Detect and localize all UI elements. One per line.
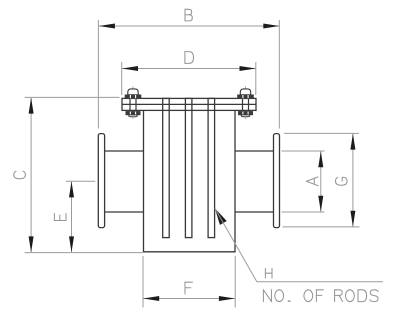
dimension B label <box>185 9 192 21</box>
dimension F arrow right <box>219 296 235 301</box>
dimension E label <box>54 213 66 220</box>
dimension C / E bottom extension line <box>25 252 143 254</box>
dimension G label <box>336 177 348 185</box>
leader H arrowhead <box>215 208 227 225</box>
dimension B extension line right <box>278 20 280 129</box>
dimension D arrow left <box>122 66 138 71</box>
right pipe bottom line <box>235 211 274 213</box>
dimension A top extension line <box>282 150 325 152</box>
bolt left top nut <box>125 95 141 99</box>
dimension B arrow left <box>99 24 115 29</box>
rod 1 <box>163 98 170 237</box>
right pipe top line <box>235 150 274 152</box>
dimension A arrow down <box>318 196 323 212</box>
dimension F line <box>143 298 235 300</box>
bolt left lower nut <box>126 111 140 115</box>
bolt right tip <box>241 115 249 117</box>
bolt right centerline tick bottom <box>245 117 247 119</box>
dimension D line <box>122 68 256 70</box>
dimension G top extension line <box>284 132 359 134</box>
dimension D label <box>185 52 194 64</box>
dimension E arrow up <box>69 181 74 197</box>
dimension C line <box>30 98 32 252</box>
dimension C label <box>14 171 26 179</box>
body right wall <box>234 110 236 252</box>
bolt right lower nut <box>238 111 252 115</box>
leader H underline <box>257 281 383 283</box>
dimension A bottom extension line <box>282 211 325 213</box>
bolt left tip <box>129 115 137 117</box>
dimension F extension line left <box>142 256 144 308</box>
dimension G arrow up <box>350 134 355 150</box>
left flange <box>98 134 104 228</box>
bolt right shank through plate <box>242 98 244 111</box>
left pipe bottom line <box>105 211 144 213</box>
dimension D arrow right <box>240 66 256 71</box>
dimension F label <box>185 282 192 294</box>
dimension A line <box>320 152 322 212</box>
right flange <box>274 134 280 228</box>
dimension C arrow down <box>29 236 34 252</box>
bolt left dome <box>128 89 138 95</box>
bolt right centerline tick top <box>245 86 247 89</box>
leader H diagonal line <box>215 208 257 282</box>
label H <box>265 269 272 279</box>
rod 3 <box>208 98 215 237</box>
dimension C top extension line <box>25 96 120 98</box>
dimension E top extension line <box>66 180 95 182</box>
top plate <box>122 98 256 110</box>
bolt left centerline tick bottom <box>132 117 134 119</box>
dimension C arrow up <box>29 98 34 114</box>
bolt right top nut <box>238 95 254 99</box>
dimension F arrow left <box>143 296 159 301</box>
top plate divider line <box>122 103 256 105</box>
rod 2 <box>185 98 192 237</box>
dimension D extension line left <box>121 62 123 95</box>
label NO. OF RODS <box>263 290 271 302</box>
dimension B line <box>99 25 279 27</box>
dimension E line <box>71 182 73 252</box>
dimension G arrow down <box>350 211 355 227</box>
bolt right dome <box>240 89 250 95</box>
body left wall <box>143 110 145 252</box>
dimension B arrow right <box>263 24 279 29</box>
dimension A label <box>307 177 319 186</box>
left pipe top line <box>105 150 144 152</box>
body bottom edge <box>143 251 236 253</box>
bolt left shank through plate <box>129 98 131 111</box>
dimension A arrow up <box>318 151 323 167</box>
dimension E arrow down <box>69 236 74 252</box>
dimension F extension line right <box>234 256 236 308</box>
dimension G bottom extension line <box>283 226 360 228</box>
dimension D extension line right <box>255 62 257 95</box>
bolt left centerline tick top <box>132 86 134 89</box>
dimension G line <box>352 134 354 227</box>
dimension B extension line left <box>97 20 99 129</box>
